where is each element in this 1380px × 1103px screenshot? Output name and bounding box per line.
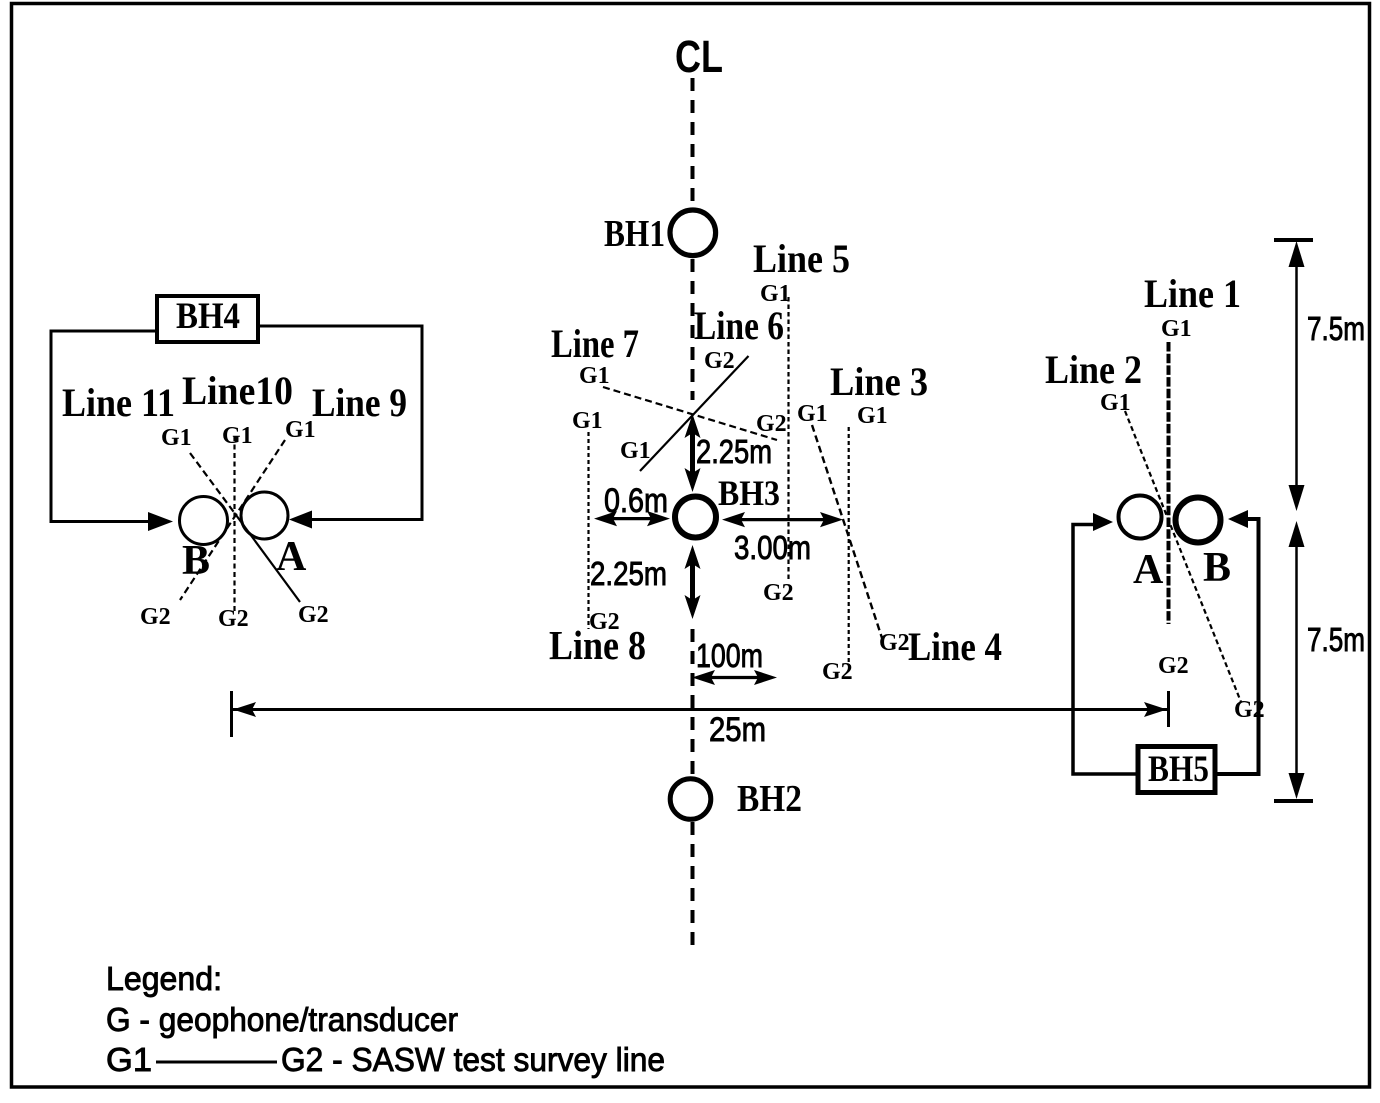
svg-text:G1: G1	[579, 363, 610, 389]
svg-text:G2: G2	[704, 348, 735, 374]
svg-text:G1: G1	[161, 425, 192, 451]
survey line Line 9	[180, 440, 285, 600]
dimension arrow 7.5m lower	[1289, 521, 1305, 799]
borehole box BH5	[1138, 747, 1215, 793]
dimension arrow 0.6m	[594, 511, 670, 526]
svg-text:G2: G2	[298, 602, 329, 628]
svg-text:BH2: BH2	[737, 778, 802, 820]
svg-text:BH3: BH3	[718, 473, 780, 513]
survey line Line 10	[233, 436, 235, 611]
svg-text:G2: G2	[763, 580, 794, 606]
borehole BH1	[670, 210, 716, 256]
survey line Line 7	[603, 387, 777, 440]
arrow into borehole B (left group)	[148, 512, 173, 531]
borehole BH3	[675, 497, 716, 538]
svg-text:G1: G1	[572, 408, 603, 434]
svg-text:Line 1: Line 1	[1144, 271, 1241, 316]
borehole BH2	[670, 779, 711, 820]
svg-text:G1: G1	[620, 438, 651, 464]
svg-text:A: A	[276, 534, 307, 580]
survey line Line 4	[812, 425, 882, 638]
dimension arrow 2.25m upper (crossing to BH3)	[685, 414, 701, 492]
svg-text:Line 8: Line 8	[549, 622, 646, 668]
svg-text:G - geophone/transducer: G - geophone/transducer	[106, 1001, 458, 1038]
survey line Line 2	[1125, 411, 1241, 702]
legend survey line sample	[156, 1061, 277, 1064]
centre line CL (dashed)	[691, 78, 695, 954]
svg-text:Line10: Line10	[182, 368, 293, 413]
survey line Line 1	[1167, 342, 1171, 624]
wire BH5 loop right	[1215, 519, 1259, 774]
svg-text:BH4: BH4	[176, 296, 240, 337]
svg-text:G2: G2	[218, 606, 249, 632]
borehole box BH4	[157, 296, 258, 342]
svg-text:3.00m: 3.00m	[734, 529, 811, 566]
svg-text:B: B	[182, 538, 210, 584]
svg-text:100m: 100m	[696, 637, 763, 674]
svg-text:Line 6: Line 6	[694, 303, 784, 348]
svg-text:G2: G2	[879, 630, 910, 656]
survey line Line 11	[190, 453, 236, 515]
borehole A circle (right group)	[1119, 496, 1162, 539]
svg-text:Line 7: Line 7	[551, 321, 639, 366]
dimension arrow 100m	[692, 670, 777, 685]
svg-text:G1: G1	[1161, 316, 1192, 342]
wire BH5 loop left	[1073, 525, 1138, 775]
dimension tick bottom right	[1274, 799, 1313, 803]
svg-text:Line 5: Line 5	[753, 236, 850, 281]
svg-text:2.25m: 2.25m	[590, 555, 667, 592]
svg-text:G2 - SASW test survey line: G2 - SASW test survey line	[281, 1041, 665, 1078]
wire BH4 loop right	[258, 326, 422, 520]
survey line Line 3	[848, 427, 850, 662]
svg-text:A: A	[1133, 547, 1164, 593]
dimension arrow 7.5m upper	[1289, 241, 1305, 511]
svg-text:G1: G1	[106, 1041, 152, 1078]
svg-text:BH5: BH5	[1148, 749, 1209, 790]
arrow into borehole A (right group)	[1093, 513, 1113, 531]
svg-text:CL: CL	[675, 31, 723, 82]
svg-text:7.5m: 7.5m	[1307, 621, 1365, 658]
survey line Line 5	[787, 297, 789, 580]
svg-text:G1: G1	[797, 401, 828, 427]
survey line Line 8	[587, 432, 589, 629]
survey line Line 6	[640, 356, 749, 471]
arrow into borehole B (right group)	[1228, 510, 1248, 528]
borehole A circle (left group)	[241, 492, 288, 539]
svg-text:Line 4: Line 4	[908, 624, 1002, 669]
svg-text:7.5m: 7.5m	[1307, 310, 1365, 347]
svg-text:G1: G1	[285, 417, 316, 443]
svg-text:G2: G2	[822, 659, 853, 685]
dimension 25m line	[232, 691, 1169, 737]
arrow into borehole A (left group)	[289, 511, 312, 529]
svg-text:25m: 25m	[709, 711, 766, 749]
svg-text:G1: G1	[857, 403, 888, 429]
borehole B circle (left group)	[180, 497, 228, 545]
dimension arrow below BH3	[685, 545, 701, 619]
svg-text:G2: G2	[1158, 653, 1189, 679]
svg-text:Line 2: Line 2	[1045, 347, 1142, 392]
svg-text:G1: G1	[222, 423, 253, 449]
svg-text:Line 11: Line 11	[62, 380, 175, 425]
svg-text:2.25m: 2.25m	[696, 433, 772, 470]
dimension tick top right	[1274, 238, 1313, 242]
svg-text:G2: G2	[140, 604, 171, 630]
svg-text:BH1: BH1	[604, 213, 665, 255]
dimension arrow 3.00m	[722, 512, 843, 527]
wire BH4 loop left	[51, 331, 157, 522]
svg-text:Line 3: Line 3	[830, 359, 928, 404]
svg-text:Legend:: Legend:	[106, 960, 222, 997]
svg-text:B: B	[1203, 545, 1231, 591]
svg-text:Line 9: Line 9	[312, 380, 407, 425]
borehole B circle (right group)	[1176, 498, 1221, 543]
